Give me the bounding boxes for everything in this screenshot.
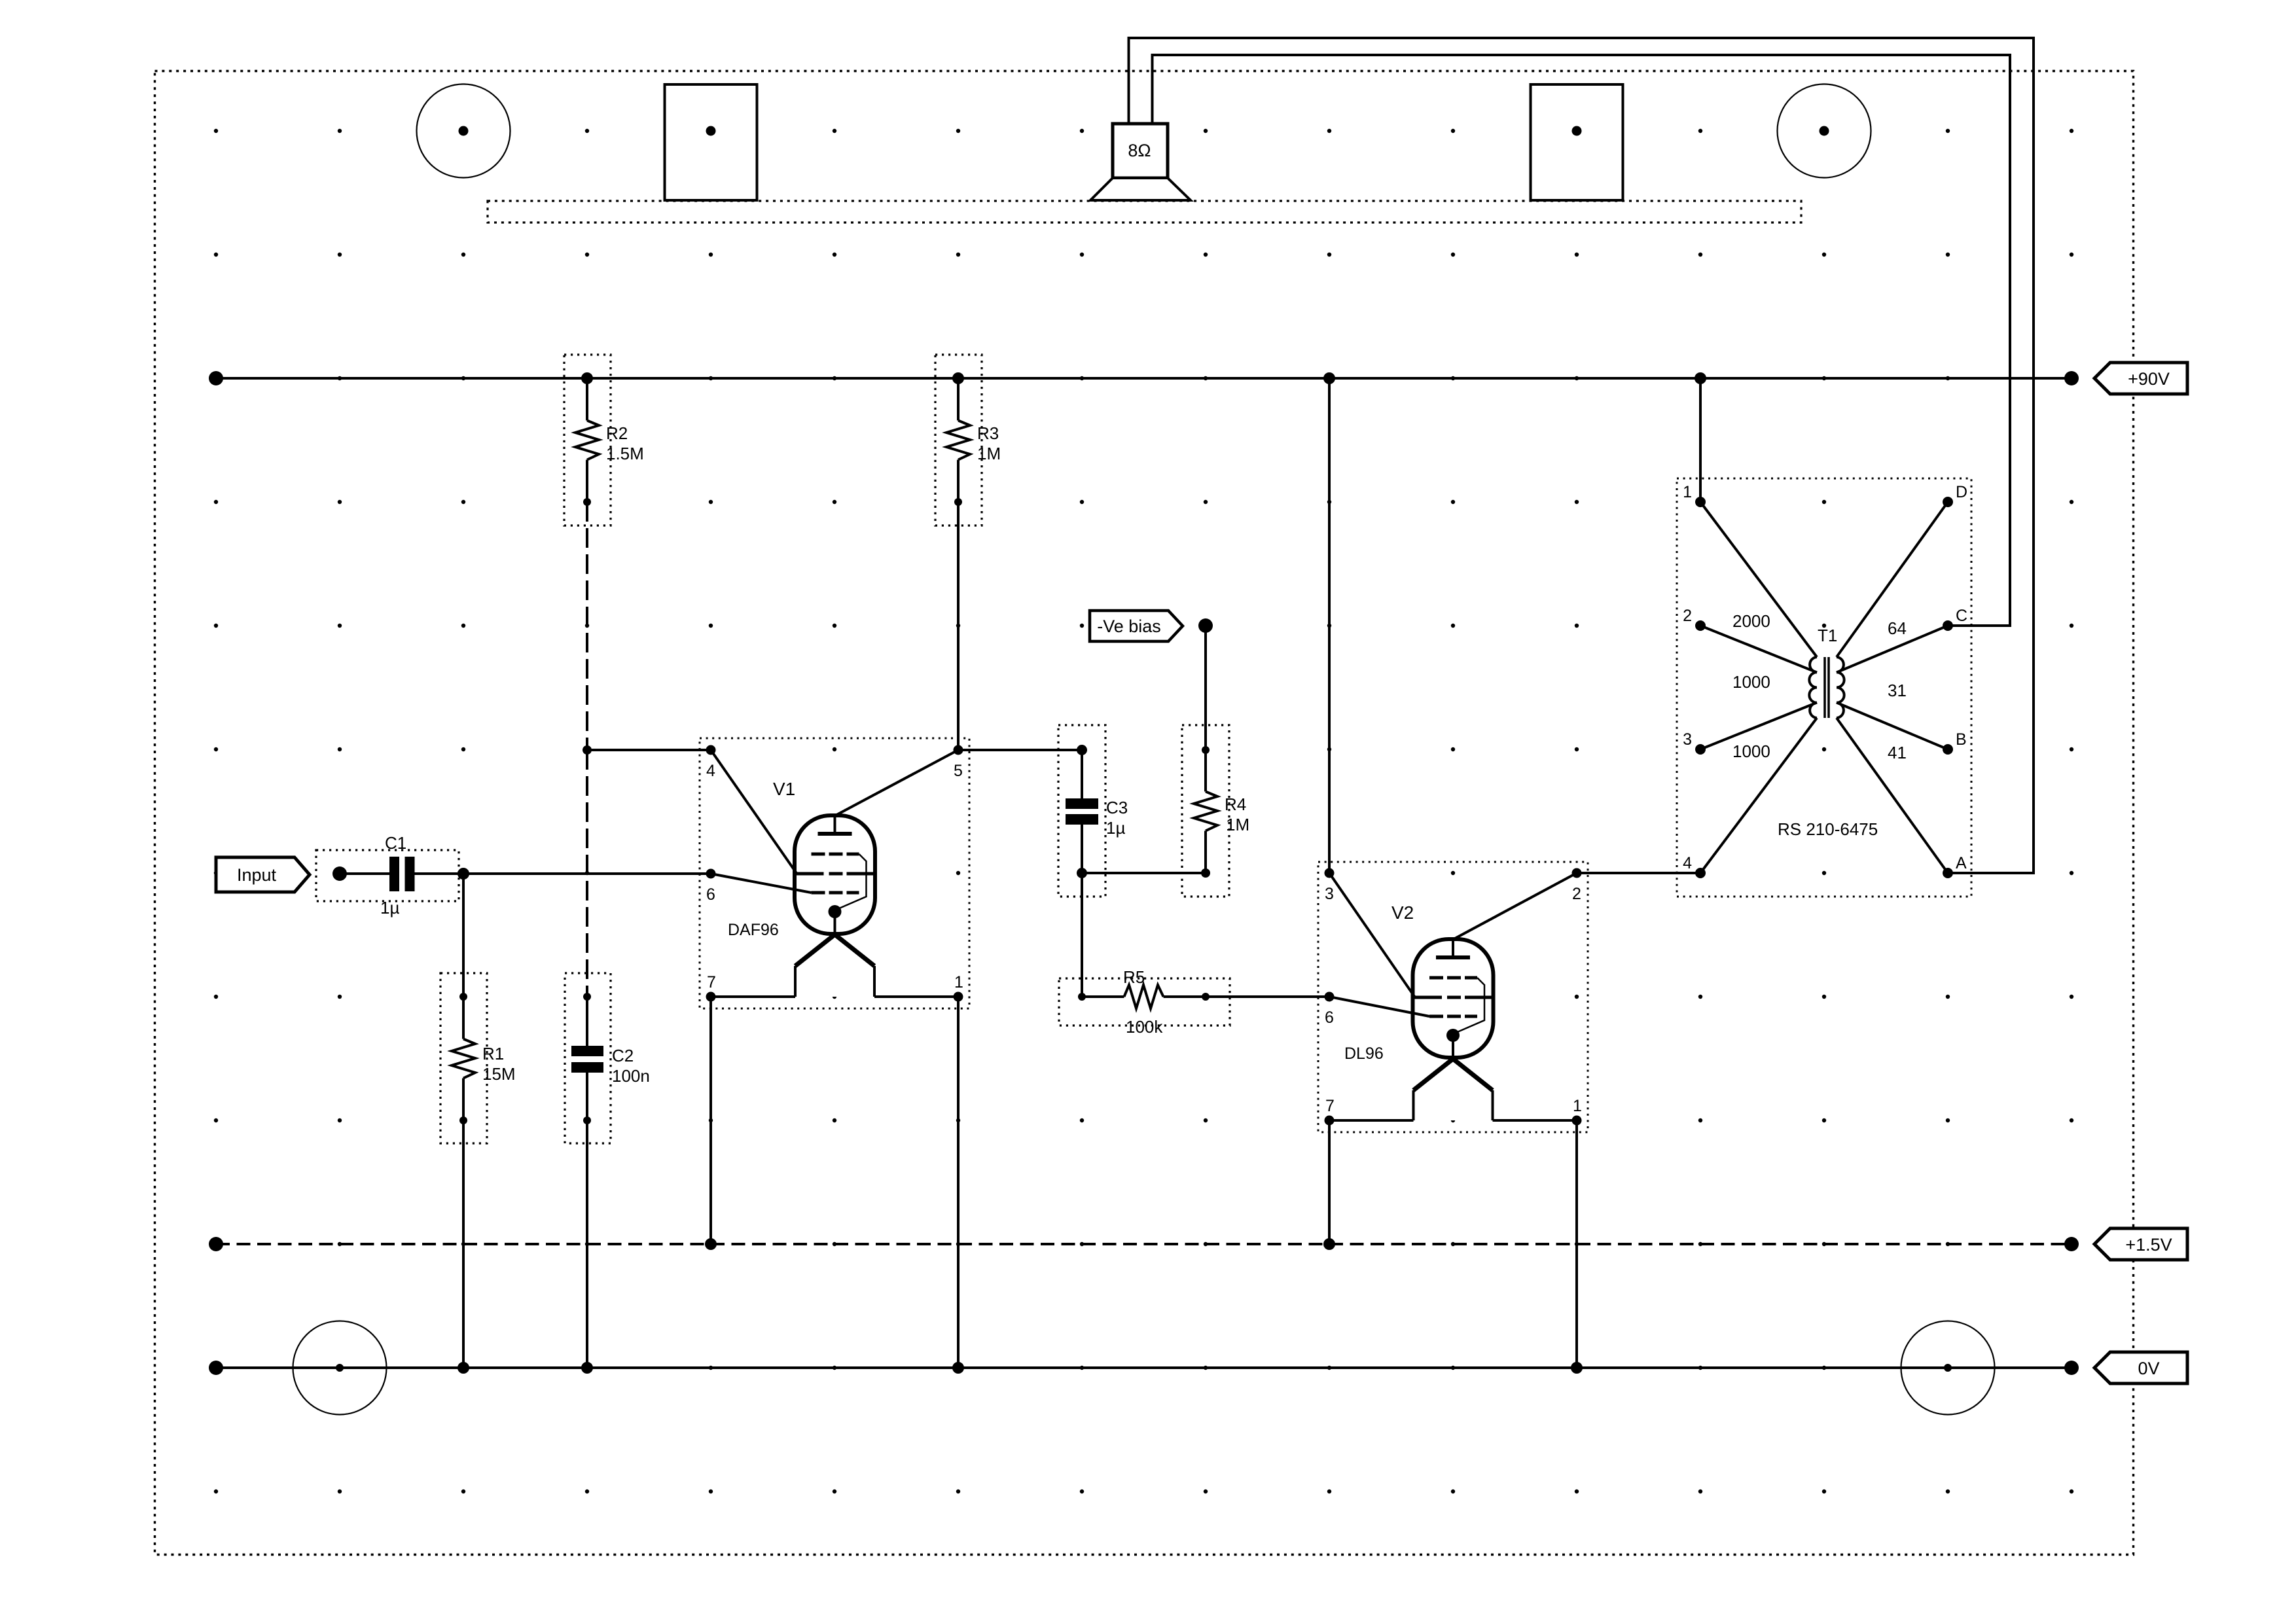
wire V1 filament to pins xyxy=(711,995,795,998)
tube V2 cathode/filament junction xyxy=(1446,1029,1460,1042)
svg-text:R1: R1 xyxy=(482,1044,504,1063)
wire input to C1 xyxy=(340,872,389,875)
resistor R1 15M xyxy=(440,973,516,1143)
svg-text:1: 1 xyxy=(1683,483,1692,501)
wire V1 pin5 to C3 xyxy=(958,749,1082,751)
wire R2 to grid junction (dashed) xyxy=(586,502,588,750)
wire V2 anode pin diagonal xyxy=(1454,873,1577,939)
svg-text:31: 31 xyxy=(1888,681,1907,700)
wire V2 pin3 screen to +90V xyxy=(1328,378,1331,873)
svg-text:1µ: 1µ xyxy=(1106,818,1125,838)
T1 core xyxy=(1823,657,1826,718)
node T1 terminal 1 xyxy=(1695,497,1706,507)
wire V1 pin7 to +1.5V xyxy=(709,997,712,1244)
0V rail wire xyxy=(216,1366,2072,1369)
svg-text:41: 41 xyxy=(1888,743,1907,762)
wire junction to V1 pin6 xyxy=(463,872,711,875)
svg-text:R5: R5 xyxy=(1123,967,1145,987)
wire V1 anode pin diagonal xyxy=(836,750,959,815)
T1 primary winding xyxy=(1809,657,1817,718)
svg-text:15M: 15M xyxy=(482,1064,516,1084)
tube V1 grid g3 (bottom dashed) xyxy=(812,891,825,895)
wire V1 diode/grid3 pin xyxy=(711,874,812,893)
svg-text:+90V: +90V xyxy=(2128,369,2170,389)
svg-text:5: 5 xyxy=(954,762,963,780)
wire V1 grid pin diagonal xyxy=(711,750,797,874)
svg-text:D: D xyxy=(1956,483,1967,501)
svg-text:1.5M: 1.5M xyxy=(606,444,644,463)
svg-text:2: 2 xyxy=(1572,885,1581,903)
svg-text:7: 7 xyxy=(707,973,716,991)
border frame xyxy=(155,71,2134,1555)
flag 0V xyxy=(2094,1352,2187,1383)
flag +90V xyxy=(2094,363,2187,394)
resistor R4 1M xyxy=(1182,725,1249,897)
wire T1 terminal C lead xyxy=(1837,626,1948,673)
wire C1 to grid node xyxy=(415,872,464,875)
svg-text:C3: C3 xyxy=(1106,798,1128,817)
wire speaker inner loop to transformer C xyxy=(1153,55,2011,626)
transformer T1 dotted outline box xyxy=(1677,478,1971,897)
svg-text:V1: V1 xyxy=(773,779,795,799)
battery cell square right xyxy=(1531,84,1623,200)
svg-text:V2: V2 xyxy=(1391,902,1414,923)
svg-text:3: 3 xyxy=(1683,730,1692,749)
svg-text:R2: R2 xyxy=(606,423,628,443)
node T1 terminal A xyxy=(1943,868,1953,878)
wire T1 terminal A lead xyxy=(1837,718,1948,873)
svg-text:4: 4 xyxy=(706,762,715,780)
wire C3 to R4 bottom xyxy=(1082,872,1206,874)
wire V2 grid pin diagonal xyxy=(1329,873,1415,997)
tube V1 anode xyxy=(818,832,852,836)
mounting hole circle right xyxy=(1778,84,1871,178)
svg-text:1: 1 xyxy=(1573,1097,1582,1115)
node Input terminal dot xyxy=(332,866,347,881)
wire R1 to 0V xyxy=(462,1120,465,1368)
dotted chassis outline xyxy=(488,201,1801,223)
resistor R2 1.5M xyxy=(564,355,644,526)
tube V1 DAF96 envelope xyxy=(795,815,875,934)
wire C2 to 0V xyxy=(586,1120,588,1368)
flag Input xyxy=(216,857,310,892)
svg-text:-Ve bias: -Ve bias xyxy=(1097,616,1161,636)
svg-text:C: C xyxy=(1956,607,1967,625)
mounting hole circle bottom-left xyxy=(293,1321,387,1415)
svg-text:R4: R4 xyxy=(1225,794,1246,814)
svg-text:64: 64 xyxy=(1888,618,1907,638)
node R2/C2/V1-pin4 junction xyxy=(583,745,592,755)
wire T1 terminal B lead xyxy=(1837,703,1948,750)
wire -Ve bias to R4 xyxy=(1204,626,1207,750)
flag -Ve bias xyxy=(1090,611,1183,641)
tube V2 DL96 envelope xyxy=(1413,939,1494,1058)
wire T1 terminal 1 to +90V xyxy=(1699,378,1702,502)
svg-text:T1: T1 xyxy=(1818,626,1837,645)
wire V1 pin1 to 0V xyxy=(957,997,960,1368)
svg-text:B: B xyxy=(1956,730,1967,749)
svg-text:100n: 100n xyxy=(612,1066,650,1086)
wire V2 pin1 to 0V xyxy=(1575,1120,1578,1368)
wire T1 terminal 2 lead xyxy=(1700,626,1817,673)
wire T1 terminal 4 lead xyxy=(1700,718,1817,873)
svg-text:2: 2 xyxy=(1683,607,1692,625)
tube V2 grid g1 (top dashed) xyxy=(1429,976,1443,980)
wire T1 terminal D lead xyxy=(1837,502,1948,657)
V2 dotted outline box xyxy=(1318,862,1588,1132)
mounting hole circle bottom-right xyxy=(1901,1321,1995,1415)
tube V1 internal connection xyxy=(836,854,867,910)
resistor R5 100k xyxy=(1059,967,1230,1037)
+1.5V rail wire (dashed) xyxy=(216,1243,2072,1245)
svg-text:DL96: DL96 xyxy=(1344,1044,1384,1063)
wire V2 diode/grid3 pin xyxy=(1329,997,1429,1016)
tube V2 grid g2 (middle dashed) xyxy=(1414,996,1442,999)
tube V1 grid g1 (top dashed) xyxy=(812,853,825,856)
tube V1 filament xyxy=(795,935,874,997)
svg-text:3: 3 xyxy=(1325,885,1334,903)
node +1.5V rail junctions xyxy=(705,1238,717,1250)
capacitor C2 100n xyxy=(565,973,650,1143)
resistor R3 1M xyxy=(935,355,1001,526)
svg-text:8Ω: 8Ω xyxy=(1128,141,1151,160)
svg-text:C2: C2 xyxy=(612,1046,634,1065)
svg-text:RS 210-6475: RS 210-6475 xyxy=(1778,819,1878,839)
wire C3 junction down to R5 xyxy=(1081,873,1083,997)
svg-text:+1.5V: +1.5V xyxy=(2125,1235,2172,1255)
node T1 terminal 2 xyxy=(1695,620,1706,631)
svg-text:1M: 1M xyxy=(977,444,1001,463)
svg-text:100k: 100k xyxy=(1126,1017,1163,1037)
tube V2 grid g3 (bottom dashed) xyxy=(1429,1015,1443,1018)
wire R5 to V2 pin6 xyxy=(1206,995,1329,998)
svg-text:DAF96: DAF96 xyxy=(728,921,779,939)
svg-text:R3: R3 xyxy=(977,423,999,443)
V1 pin dots and numbers xyxy=(706,745,716,755)
wire T1 terminal 1 lead xyxy=(1700,502,1817,657)
svg-text:2000: 2000 xyxy=(1732,611,1770,631)
wire junction to V1 pin4 xyxy=(587,749,711,751)
capacitor C3 1u xyxy=(1058,725,1128,897)
svg-text:1: 1 xyxy=(954,973,963,991)
tube V2 filament xyxy=(1414,1059,1493,1120)
flag +1.5V xyxy=(2094,1228,2187,1260)
wire V2 pin7 to +1.5V xyxy=(1328,1120,1331,1244)
battery cell square left xyxy=(665,84,757,200)
wire V2 filament to pins xyxy=(1329,1119,1414,1122)
svg-text:1M: 1M xyxy=(1226,815,1249,834)
wire V2 pin2 anode to T1 xyxy=(1577,872,1700,874)
tube V2 internal connection xyxy=(1454,978,1484,1033)
node 0V rail junctions xyxy=(457,1362,469,1374)
node T1 terminal 3 xyxy=(1695,744,1706,755)
V1 dotted outline box xyxy=(700,738,969,1008)
wire junction down to R1 xyxy=(462,874,465,997)
svg-text:A: A xyxy=(1956,854,1967,872)
+90V rail wire xyxy=(216,377,2072,380)
svg-text:1µ: 1µ xyxy=(380,898,399,918)
capacitor C1 1u xyxy=(316,833,459,918)
svg-text:1000: 1000 xyxy=(1732,741,1770,761)
-Ve bias terminal dot xyxy=(1198,618,1213,633)
node T1 terminal 4 xyxy=(1695,868,1706,878)
wire speaker outer loop to transformer A xyxy=(1129,38,2034,873)
wire T1 terminal 3 lead xyxy=(1700,703,1817,750)
svg-text:0V: 0V xyxy=(2138,1359,2159,1378)
svg-text:7: 7 xyxy=(1325,1097,1335,1115)
node +90V rail junctions xyxy=(581,372,593,384)
svg-text:Input: Input xyxy=(237,865,277,885)
speaker LS1 8ohm xyxy=(1090,124,1191,200)
node T1 terminal B xyxy=(1943,744,1953,755)
tube V2 anode xyxy=(1436,955,1470,959)
svg-text:1000: 1000 xyxy=(1732,672,1770,692)
svg-text:6: 6 xyxy=(1325,1008,1334,1027)
wire junction to C2 (dashed) xyxy=(586,750,588,997)
svg-text:C1: C1 xyxy=(385,833,406,853)
mounting hole circle left xyxy=(417,84,511,178)
T1 secondary winding xyxy=(1837,657,1844,718)
tube V1 grid g2 (middle dashed) xyxy=(796,872,824,876)
tube V1 cathode/filament junction xyxy=(829,905,842,918)
node C1/R1 junction xyxy=(457,868,469,880)
node T1 terminal C xyxy=(1943,620,1953,631)
svg-text:4: 4 xyxy=(1683,854,1692,872)
node T1 terminal D xyxy=(1943,497,1953,507)
node C3 bottom junction xyxy=(1077,868,1087,878)
wire R3 to V1 pin5 xyxy=(957,502,960,750)
V2 pin dots and numbers xyxy=(1325,868,1335,878)
svg-text:6: 6 xyxy=(706,885,715,904)
